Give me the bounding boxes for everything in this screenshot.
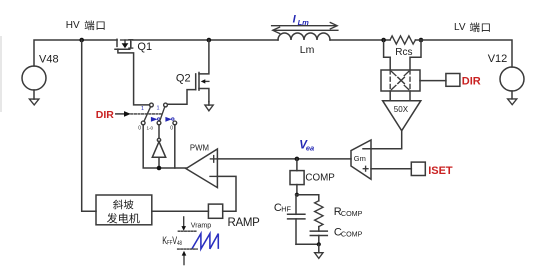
svg-text:Lm: Lm <box>300 44 315 56</box>
svg-text:V12: V12 <box>488 53 508 65</box>
svg-text:50X: 50X <box>394 105 409 114</box>
ground (compensation network) <box>315 244 323 258</box>
svg-text:COMP: COMP <box>341 230 363 239</box>
multiplier / polarity chopper (x) <box>381 70 420 91</box>
svg-text:PWM: PWM <box>190 144 209 153</box>
transistor Q1 (PMOS, in series with HV rail) <box>115 39 152 53</box>
resistor Rcs (current sense) <box>390 36 415 58</box>
ground (below V48) <box>29 90 39 105</box>
wire: vertical feed from HV rail down to ramp generator <box>82 40 96 211</box>
inverter (gate drive) <box>152 138 165 168</box>
label: K_FF V_48 <box>162 235 182 247</box>
svg-text:DIR: DIR <box>462 75 481 87</box>
resistor R_COMP <box>296 195 363 227</box>
wire: rail from inductor to Rcs <box>330 39 390 41</box>
wire: Gm output / error voltage bus to PWM comparator <box>217 158 351 160</box>
ground (below Q2) <box>205 102 213 111</box>
wire: DIR control arrow <box>116 111 161 117</box>
wire: switch throw right down to PWM output bus <box>174 125 176 168</box>
svg-text:RAMP: RAMP <box>228 217 261 229</box>
wire: chopper to DIR box <box>420 80 446 82</box>
svg-text:ISET: ISET <box>428 165 453 177</box>
node: Rcs left terminal <box>381 38 386 43</box>
svg-text:1-0: 1-0 <box>147 125 154 130</box>
wire: 50X output to Gm inverting input <box>363 131 402 149</box>
capacitor C_COMP <box>310 227 362 245</box>
wire: switch throw left down to PWM output bus <box>143 125 186 168</box>
node: compensation network top <box>295 185 299 197</box>
port DIR (right) <box>446 74 481 88</box>
svg-text:Q1: Q1 <box>137 41 152 53</box>
wire: chopper outputs into 50X amp <box>390 91 410 101</box>
current arrows I_Lm (bidirectional) <box>272 13 338 33</box>
op-amp Gm (error amplifier) <box>351 140 371 179</box>
annotation: lower dashed level <box>178 248 198 250</box>
svg-text:ea: ea <box>306 143 314 152</box>
wire: PWM inverting input from RAMP <box>217 176 236 211</box>
svg-text:V48: V48 <box>39 54 59 66</box>
capacitor C_HF <box>274 195 305 245</box>
switch S1 (gate-drive steering, pole to Q1 gate) <box>138 103 160 131</box>
svg-text:COMP: COMP <box>341 209 363 218</box>
annotation: Vramp amplitude arrow (down) <box>181 217 211 231</box>
svg-text:HV: HV <box>66 20 80 31</box>
switch S2 (gate-drive steering, pole to Q2 gate) <box>157 103 177 131</box>
node: PWM output junction <box>157 166 162 171</box>
port COMP <box>290 159 335 185</box>
wire: Q2 gate to switch throw <box>167 90 195 105</box>
ground (below V12) <box>508 91 517 105</box>
wire: HV main rail left segment <box>34 40 117 66</box>
wire: Rcs left lead into polarity chopper <box>384 40 391 70</box>
svg-text:Q2: Q2 <box>176 72 191 84</box>
annotation: amplitude arrow (up) <box>182 251 187 265</box>
svg-text:HF: HF <box>281 204 291 213</box>
svg-text:Gm: Gm <box>354 154 366 163</box>
wire: HV rail from Q1 to inductor <box>133 39 278 41</box>
port RAMP <box>208 204 260 229</box>
svg-text:Vramp: Vramp <box>191 222 211 229</box>
node: junction on HV rail feeding ramp generator <box>79 38 84 43</box>
svg-text:1: 1 <box>141 106 144 112</box>
svg-text:DIR: DIR <box>96 109 115 121</box>
border: faint figure crop edge <box>0 36 2 112</box>
label: LV 端口 <box>454 22 490 33</box>
svg-text:COMP: COMP <box>305 173 335 184</box>
svg-text:1: 1 <box>157 106 160 112</box>
wire: ISET into Gm non-inverting input <box>371 168 411 170</box>
node: Rcs right terminal <box>419 38 424 43</box>
svg-text:48: 48 <box>177 240 182 247</box>
svg-text:0: 0 <box>138 125 141 131</box>
svg-text:Lm: Lm <box>298 18 310 27</box>
wire: Rcs right lead into polarity chopper <box>410 40 421 70</box>
svg-text:0: 0 <box>170 125 173 131</box>
wire: Q1 gate to switch throw <box>118 49 150 105</box>
label DIR (left, switch control) <box>96 109 115 121</box>
voltage source V12 <box>488 53 524 91</box>
node: Q2 drain junction <box>207 38 212 43</box>
wire: ramp generator to RAMP box <box>152 210 209 212</box>
wire: switch middle throw down to inverter output <box>158 125 160 139</box>
svg-text:LV: LV <box>454 22 466 33</box>
wire: rail from Rcs to LV port <box>415 40 512 67</box>
node: compensation network bottom junction <box>296 242 321 246</box>
amplifier 50X (current sense amp) <box>383 101 421 131</box>
label: HV 端口 <box>66 20 105 31</box>
transistor Q2 (NMOS to ground) <box>176 40 209 102</box>
node Vea <box>295 139 315 161</box>
annotation: upper dashed level <box>178 230 197 232</box>
port ISET <box>411 162 453 177</box>
inductor Lm <box>278 33 330 56</box>
svg-text:Rcs: Rcs <box>395 47 412 58</box>
voltage source V48 <box>22 54 59 91</box>
waveform: sawtooth ramp (blue) <box>192 234 218 249</box>
op-amp PWM comparator <box>186 144 217 188</box>
ramp generator box 斜坡发电机 <box>96 195 152 225</box>
